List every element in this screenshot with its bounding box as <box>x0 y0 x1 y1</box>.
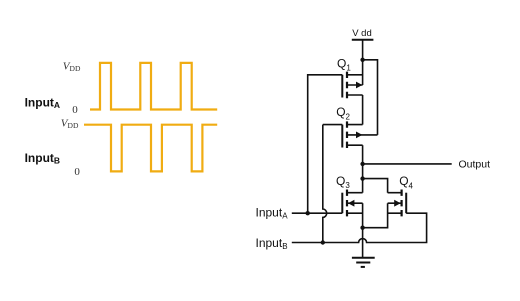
wire Q2 drain to NMOS drains <box>362 145 364 193</box>
wire Input A to Q1 gate (with hop over crossing) <box>308 75 343 243</box>
transistor Q1 (PMOS) <box>342 72 362 99</box>
wire Q4 body-source to ground node <box>363 203 388 228</box>
power rail V dd <box>352 39 374 41</box>
svg-text:V dd: V dd <box>352 28 372 39</box>
ground symbol <box>352 258 375 267</box>
wire node to Q4 drain <box>363 179 388 193</box>
wire Input A to Q3 gate <box>292 212 343 214</box>
junction output node <box>360 162 364 166</box>
waveform Input A trace <box>90 63 217 110</box>
wire Input B to Q2 gate <box>323 124 343 126</box>
wire Q3 body-source to ground node <box>362 203 364 228</box>
svg-text:0: 0 <box>74 166 80 178</box>
transistor Q2 (PMOS) <box>342 121 377 148</box>
svg-text:0: 0 <box>72 104 78 116</box>
wire V dd stem to Q1 source and body <box>362 40 364 85</box>
wire V dd node to Q2 body <box>363 60 378 135</box>
transistor Q4 (NMOS, mirrored) <box>388 190 407 217</box>
svg-text:Output: Output <box>459 159 491 171</box>
wire Input B to Q4 gate (with hop over ground stem) <box>292 213 427 242</box>
junction Input A node <box>306 211 310 215</box>
wire Q1 drain to Q2 source <box>362 95 364 125</box>
junction NMOS drain node <box>360 176 364 180</box>
junction Input B node <box>321 240 325 244</box>
junction ground node <box>360 226 364 230</box>
junction V dd node <box>360 58 364 62</box>
wire output <box>363 163 452 165</box>
wire ground stem <box>362 228 364 258</box>
transistor Q3 (NMOS) <box>342 190 362 217</box>
waveform Input B trace <box>84 125 217 172</box>
